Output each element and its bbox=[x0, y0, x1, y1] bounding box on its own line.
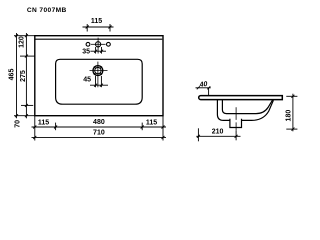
svg-text:40: 40 bbox=[198, 81, 208, 89]
svg-text:120: 120 bbox=[19, 36, 26, 48]
svg-text:35: 35 bbox=[82, 48, 90, 55]
svg-text:45: 45 bbox=[83, 77, 91, 84]
svg-text:115: 115 bbox=[38, 120, 49, 127]
svg-text:115: 115 bbox=[91, 18, 102, 25]
svg-text:CN 7007MB: CN 7007MB bbox=[27, 7, 67, 14]
svg-text:180: 180 bbox=[285, 110, 292, 122]
svg-text:115: 115 bbox=[146, 120, 157, 127]
svg-text:275: 275 bbox=[20, 70, 27, 82]
svg-text:210: 210 bbox=[212, 129, 224, 136]
svg-text:465: 465 bbox=[8, 69, 15, 81]
svg-text:70: 70 bbox=[15, 120, 22, 128]
svg-text:710: 710 bbox=[93, 129, 105, 136]
svg-text:480: 480 bbox=[93, 119, 105, 126]
